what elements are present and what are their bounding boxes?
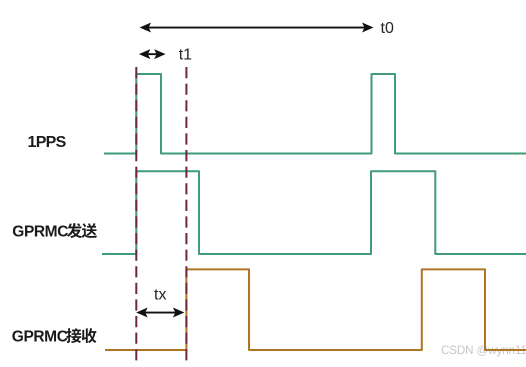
svg-text:1PPS: 1PPS (28, 134, 67, 151)
svg-text:GPRMC: GPRMC (12, 224, 68, 241)
node dashed marker line 2 (185, 67, 187, 361)
wire t1 dimension arrow (139, 49, 166, 59)
wire t0 dimension arrow (140, 23, 374, 33)
node GPRMC receive signal label (12, 328, 97, 345)
svg-text:t1: t1 (179, 47, 192, 64)
wire GPRMC receive waveform trace (105, 269, 526, 350)
wire tx dimension arrow (136, 308, 184, 318)
wire GPRMC send waveform trace (102, 171, 526, 254)
wire 1PPS waveform trace (104, 74, 526, 154)
svg-text:GPRMC: GPRMC (12, 329, 68, 346)
svg-text:t0: t0 (381, 20, 394, 37)
svg-text:tx: tx (154, 287, 166, 304)
node dashed marker line 1 (135, 67, 137, 361)
node GPRMC send signal label (12, 223, 97, 241)
